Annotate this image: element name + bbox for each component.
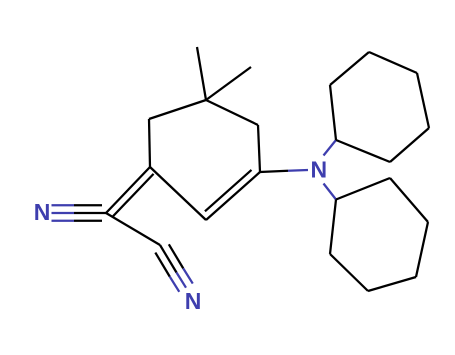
- svg-text:N: N: [185, 288, 202, 314]
- svg-text:N: N: [310, 157, 327, 183]
- svg-text:N: N: [34, 199, 51, 225]
